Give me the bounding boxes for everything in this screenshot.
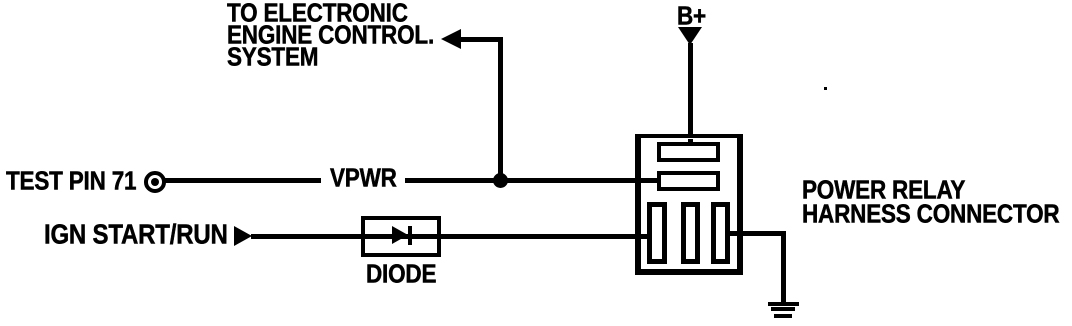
diode D1 anode triangle bbox=[392, 226, 408, 244]
wire: IGN START/RUN through diode to connector pin 1 bbox=[251, 234, 651, 239]
label: TEST PIN 71 bbox=[6, 169, 136, 194]
connector slot 2 bbox=[657, 171, 720, 192]
wire: IGN stub inside connector bbox=[640, 234, 651, 239]
label: IGN START/RUN bbox=[44, 223, 228, 248]
connector pin 2 bbox=[681, 202, 701, 264]
B+ supply arrowhead (down) bbox=[678, 27, 702, 45]
label: B+ bbox=[677, 4, 706, 29]
ground symbol bbox=[768, 302, 799, 306]
connector pin 3 bbox=[711, 202, 731, 264]
wire: segment inside diode box bbox=[365, 234, 437, 239]
connector: power relay harness connector outline bbox=[635, 134, 743, 275]
wire: TEST PIN 71 to VPWR label bbox=[165, 178, 321, 183]
wire: VPWR stub inside connector bbox=[640, 178, 660, 183]
wire: vertical from corner down to VPWR junction bbox=[498, 37, 503, 180]
label: TO ELECTRONIC ENGINE CONTROL SYSTEM bbox=[227, 1, 408, 26]
label: VPWR bbox=[330, 166, 397, 191]
diode D1 enclosure box bbox=[361, 216, 441, 257]
connector slot 1 bbox=[657, 142, 720, 162]
wire: horizontal from arrow to corner bbox=[458, 37, 503, 42]
wire: connector pin 3 to ground drop bbox=[727, 231, 785, 236]
wire: vertical down to ground bbox=[781, 231, 786, 304]
arrowhead: IGN START/RUN feed bbox=[234, 226, 252, 246]
connector pin 1 bbox=[647, 202, 667, 264]
wire: VPWR label to connector slot 2 bbox=[405, 178, 660, 183]
node: junction dot on VPWR net bbox=[493, 173, 508, 188]
arrowhead to electronic engine control system bbox=[441, 29, 461, 49]
test point symbol (circle with dot) bbox=[144, 171, 166, 193]
diode D1 cathode bar bbox=[408, 226, 412, 245]
label: DIODE bbox=[366, 262, 436, 287]
wire: B+ stub inside connector bbox=[688, 139, 693, 147]
wire: B+ down to connector slot 1 bbox=[688, 43, 693, 147]
label: POWER RELAY HARNESS CONNECTOR bbox=[802, 178, 965, 203]
